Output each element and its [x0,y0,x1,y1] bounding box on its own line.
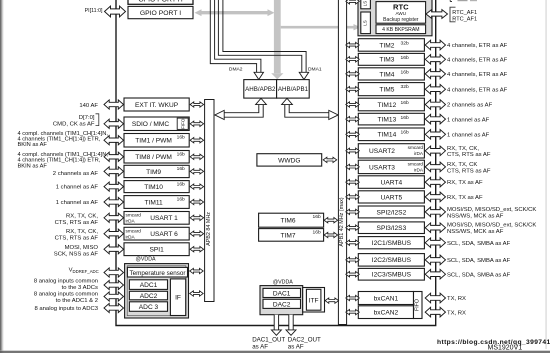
Temperature sensor [127,267,187,277]
svg-text:RTC: RTC [393,2,409,11]
arrow TIM1 / PWM to APB2 [190,138,204,143]
svg-text:RX, TX, CK: RX, TX, CK [447,162,477,168]
svg-text:UART5: UART5 [381,194,403,201]
peripheral TIM12 [358,98,424,111]
arrow right AF TIM14 [425,130,445,140]
peripheral SPI2/I2S2 [358,206,424,218]
peripheral TIM3 [358,53,424,65]
arrow right AF TIM5 [425,84,445,94]
svg-text:SCL, SDA, SMBA as AF: SCL, SDA, SMBA as AF [447,272,511,278]
arrow TIM9 to APB2 [190,169,204,174]
peripheral SDIO / MMC [124,117,189,131]
svg-text:Temperature sensor: Temperature sensor [130,270,186,277]
GPIO PORT I [128,6,193,18]
arrow left AF TIM9 [104,167,123,176]
svg-text:ITF: ITF [309,297,319,304]
gray bus arrow to RTC LS [281,24,361,30]
peripheral USART 6 [124,227,189,240]
arrow right AF TIM13 [425,114,445,124]
svg-text:2 channels as AF: 2 channels as AF [447,103,493,109]
svg-text:AWU: AWU [396,11,407,16]
arrow TIM7 to APB1 [324,232,338,237]
svg-text:140 AF: 140 AF [79,103,98,109]
label 8 analog inputs common to the 3 ADCs [34,278,98,290]
svg-text:to the ADC1 & 2: to the ADC1 & 2 [56,298,98,304]
svg-text:AHB/APB2: AHB/APB2 [245,86,276,93]
label DAC2_OUT as AF [288,337,321,351]
ADC2 [129,291,167,300]
svg-text:D[7:0]: D[7:0] [79,115,95,121]
arrow APB1 to bxCAN2 [346,309,360,314]
svg-text:SDIO / MMC: SDIO / MMC [132,121,170,128]
peripheral TIM7 [259,229,324,242]
svg-text:SCL, SDA, SMBA as AF: SCL, SDA, SMBA as AF [447,258,511,264]
DAC1 [263,288,301,297]
page right faint border [545,0,548,349]
arrow APB1 to USART2 [346,148,360,153]
RTC outer block [358,0,432,36]
DMA2 request wire (hollow) [210,0,263,80]
wire AHB/APB2 to APB2 bus [215,98,267,119]
svg-text:IF: IF [175,294,181,301]
arrow right AF SPI2/I2S2 [425,207,445,217]
svg-text:TIM4: TIM4 [379,71,394,78]
peripheral USART 1 [124,212,189,225]
bus APB1 42 MHz (max) [338,0,346,325]
svg-text:MOSI, MISO: MOSI, MISO [65,245,99,251]
svg-text:@VDDA: @VDDA [135,256,156,262]
arrow APB1 to TIM2 [346,42,360,47]
arrow left AF USART 1 [104,213,123,222]
ADC3 [129,302,167,312]
svg-text:RX, TX, CK,: RX, TX, CK, [66,214,98,220]
svg-text:UART4: UART4 [381,180,403,187]
svg-text:8 analog inputs to ADC3: 8 analog inputs to ADC3 [34,306,98,312]
arrow ADC to APB2 [190,291,204,296]
arrow APB1 to I2C3/SMBUS [346,272,360,277]
arrow left AF EXT IT. WKUP [104,100,123,109]
arrow right AF TIM4 [425,69,445,79]
svg-text:TIM10: TIM10 [144,184,163,191]
svg-text:16b: 16b [401,100,409,106]
arrow APB1 to I2C1/SMBUS [346,240,360,245]
AHB system bus (gray vertical) [271,0,283,79]
peripheral TIM6 [259,213,324,227]
svg-text:16b: 16b [313,214,321,220]
svg-text:FIFO: FIFO [414,299,420,311]
arrow left AF TIM1 / PWM [104,136,123,145]
RTC LS box 2 [361,12,371,34]
svg-text:NSS/WS, MCK as AF: NSS/WS, MCK as AF [447,229,504,235]
svg-text:32b: 32b [401,84,409,90]
label SPI2/I2S2 pins [447,207,536,219]
label DAC1_OUT as AF [252,337,285,351]
svg-text:TIM7: TIM7 [280,232,295,239]
svg-text:APB1 42 MHz (max): APB1 42 MHz (max) [339,197,345,246]
svg-text:ADC1: ADC1 [140,282,158,289]
arrow right AF I2C1/SMBUS [425,238,445,248]
arrow RTC AF [426,10,448,19]
arrow temp sensor to APB2 [190,268,204,273]
arrow DAC to APB1 [325,298,339,303]
svg-text:smcard: smcard [126,229,142,234]
svg-text:CTS, RTS as AF: CTS, RTS as AF [55,236,99,242]
svg-text:BKIN as AF: BKIN as AF [18,142,48,148]
label TIM8 channels [18,152,109,169]
svg-text:CTS, RTS as AF: CTS, RTS as AF [447,168,491,174]
svg-text:16b: 16b [177,166,185,172]
svg-text:1 channel as AF: 1 channel as AF [447,117,490,123]
arrow right AF TIM12 [425,100,445,110]
RTC 4 KB BKPSRAM box [376,25,426,34]
arrow left AF USART 6 [104,229,123,238]
DAC1 output arrow [271,315,281,336]
svg-text:16b: 16b [177,196,185,202]
svg-text:TX, RX: TX, RX [447,296,466,302]
svg-text:FIFO: FIFO [180,118,185,129]
svg-text:EXT IT. WKUP: EXT IT. WKUP [135,102,179,109]
peripheral TIM14 [358,128,424,141]
arrow EXT IT. WKUP to APB2 [190,102,204,107]
peripheral TIM10 [124,181,189,193]
peripheral TIM4 [358,68,424,80]
arrow APB1 to bxCAN1 [346,295,360,300]
DAC ITF box [303,288,325,313]
svg-text:Backup register: Backup register [383,17,419,23]
svg-text:smcard: smcard [408,162,424,167]
label USART3 pins [447,162,491,174]
svg-text:MOSI/SD, MISO/SD_ext, SCK/CK: MOSI/SD, MISO/SD_ext, SCK/CK [447,207,536,213]
label RTC_AF1 x2 with bracket [450,7,477,22]
svg-text:TIM14: TIM14 [378,132,397,139]
RTC box [376,2,426,24]
svg-text:TIM3: TIM3 [379,57,394,64]
svg-text:irDA: irDA [126,219,136,224]
svg-text:RX, TX, CK,: RX, TX, CK, [447,146,479,152]
arrow right AF I2C3/SMBUS [425,269,445,279]
arrow right AF SPI3/I2S3 [425,223,445,233]
svg-text:TIM1 / PWM: TIM1 / PWM [135,138,172,145]
svg-text:8 analog inputs common: 8 analog inputs common [34,278,98,284]
svg-text:TIM2: TIM2 [379,42,394,49]
arrow APB1 to SPI3/I2S3 [346,225,360,230]
arrow ADC input 1 [104,268,123,277]
partial bracket of cut-off row above RTC_AF1 [450,0,477,2]
svg-text:1 channel as AF: 1 channel as AF [56,200,99,206]
arrow right AF TIM2 [425,40,445,50]
arrow TIM8 / PWM to APB2 [190,154,204,159]
svg-text:RX, TX, CK,: RX, TX, CK, [66,229,98,235]
svg-text:to the 3 ADCs: to the 3 ADCs [62,285,98,291]
svg-text:1 channel as AF: 1 channel as AF [56,185,99,191]
arrow ADC input 4 [104,303,123,312]
svg-text:@VDDA: @VDDA [273,279,294,285]
svg-text:ADC2: ADC2 [140,293,158,300]
arrow PI [105,6,126,17]
svg-text:4 channels, ETR as AF: 4 channels, ETR as AF [447,87,508,93]
peripheral TIM11 [124,196,189,209]
svg-text:APB2 84 MHz: APB2 84 MHz [206,212,212,246]
svg-text:USART2: USART2 [369,148,395,155]
svg-text:CTS, RTS as AF: CTS, RTS as AF [55,220,99,226]
page left edge shadow [0,0,3,353]
arrow right AF TIM3 [425,55,445,65]
bus APB2 84 MHz [205,100,214,302]
svg-text:RX, TX as AF: RX, TX as AF [447,180,483,186]
svg-text:TIM11: TIM11 [144,199,163,206]
arrow right AF USART2 [425,146,445,156]
svg-text:TIM8 / PWM: TIM8 / PWM [135,154,172,161]
arrow USART 1 to APB2 [190,215,204,220]
arrow SPI1 to APB2 [190,247,204,252]
svg-text:smcard: smcard [126,213,142,218]
svg-text:ADC 3: ADC 3 [139,304,159,311]
arrow left AF SDIO / MMC [104,119,123,128]
peripheral TIM1 / PWM [124,134,189,148]
peripheral SPI1 [124,243,189,256]
arrow APB1 to TIM5 [346,87,360,92]
arrow left AF TIM10 [104,182,123,191]
arrow left AF TIM11 [104,197,123,206]
svg-text:DDREF_ADC: DDREF_ADC [73,269,99,274]
svg-text:TIM6: TIM6 [280,218,295,225]
svg-text:AHB/APB1: AHB/APB1 [278,86,309,93]
arrow APB1 to TIM4 [346,71,360,76]
svg-text:RX, TX as AF: RX, TX as AF [447,195,483,201]
svg-text:16b: 16b [401,69,409,75]
peripheral bxCAN2 [358,306,413,319]
svg-text:LS: LS [362,20,367,25]
svg-text:TIM13: TIM13 [378,117,397,124]
svg-text:16b: 16b [313,229,321,235]
svg-text:CTS, RTS as AF: CTS, RTS as AF [447,152,491,158]
svg-text:bxCAN1: bxCAN1 [374,295,399,302]
DAC outer box [260,286,303,315]
svg-text:DAC1: DAC1 [273,291,291,298]
chip boundary (left edge, bottom edge, right edge) [116,0,436,326]
svg-text:DAC2: DAC2 [273,302,291,309]
arrow APB1 to SPI2/I2S2 [346,209,360,214]
svg-text:SPI2/I2S2: SPI2/I2S2 [377,209,407,216]
svg-text:DMA1: DMA1 [308,66,322,72]
peripheral TIM9 [124,165,189,177]
svg-text:PI[11:0]: PI[11:0] [85,8,103,14]
svg-text:WWDG: WWDG [278,157,300,164]
peripheral USART3 [358,160,424,173]
DAC2 [263,299,301,308]
arrow USART 6 to APB2 [190,231,204,236]
svg-text:irDA: irDA [414,151,424,156]
arrow right AF I2C2/SMBUS [425,255,445,265]
wire AHB/APB1 to APB1 bus [282,98,339,119]
svg-text:irDA: irDA [126,234,136,239]
svg-text:TIM9: TIM9 [146,169,161,176]
svg-text:TX, RX: TX, RX [447,310,466,316]
peripheral SPI3/I2S3 [358,222,424,234]
svg-text:smcard: smcard [408,145,424,150]
svg-text:USART 6: USART 6 [150,231,178,238]
svg-text:MOSI/SD, MISO/SD_ext, SCK/CK: MOSI/SD, MISO/SD_ext, SCK/CK [447,223,536,229]
bxCAN FIFO box [414,292,423,319]
peripheral TIM5 [358,83,424,96]
peripheral I2C1/SMBUS [358,237,424,249]
arrow right AF bxCAN1 [425,293,445,303]
arrow ADC input 2 [104,280,123,289]
arrow APB1 to TIM3 [346,57,360,62]
label USART6 pins [55,229,99,241]
svg-text:BKIN as AF: BKIN as AF [18,163,48,169]
svg-text:TIM5: TIM5 [379,87,394,94]
label SPI3/I2S3 pins [447,223,536,235]
arrow APB1 to TIM14 [346,132,360,137]
label USART1 pins [55,214,99,226]
svg-text:GPIO PORT I: GPIO PORT I [140,10,181,17]
svg-text:NSS/WS, MCK as AF: NSS/WS, MCK as AF [447,213,504,219]
svg-text:16b: 16b [401,115,409,121]
svg-text:4 KB BKPSRAM: 4 KB BKPSRAM [382,27,419,33]
bridge AHB/APB1 [277,80,310,99]
svg-text:16b: 16b [177,181,185,187]
svg-text:16b: 16b [401,130,409,136]
arrow APB1 to I2C2/SMBUS [346,257,360,262]
label SPI1 pins [54,245,99,257]
label 8 analog inputs common to the ADC1 & 2 [34,292,98,304]
peripheral TIM8 / PWM [124,151,189,164]
arrow top (cut) APB1 to RTC [346,0,360,4]
arrow SDIO / MMC to APB2 [190,121,204,126]
svg-text:RTC_AF1: RTC_AF1 [452,10,477,16]
svg-text:bxCAN2: bxCAN2 [374,310,399,317]
svg-text:as AF: as AF [252,343,268,350]
arrow APB1 to UART5 [346,194,360,199]
DMA1 request wire (hollow) [218,0,308,80]
svg-text:irDA: irDA [414,167,424,172]
svg-text:USART 1: USART 1 [150,215,178,222]
arrow ADC input 3 [104,292,123,301]
svg-text:LS: LS [362,1,367,6]
svg-text:1 channel as AF: 1 channel as AF [447,133,490,139]
svg-text:CMD, CK as AF: CMD, CK as AF [53,121,95,127]
RTC LS box 1 [361,0,371,9]
svg-text:RTC_AF1: RTC_AF1 [452,16,477,22]
bridge AHB/APB2 [244,80,277,99]
peripheral I2C2/SMBUS [358,254,424,267]
svg-text:SCK, NSS as AF: SCK, NSS as AF [54,252,99,258]
arrow APB1 to TIM13 [346,116,360,121]
peripheral UART5 [358,191,424,203]
svg-text:GPIO PORT H: GPIO PORT H [138,0,182,3]
svg-text:SPI1: SPI1 [149,247,164,254]
label TIM1 channels [18,131,109,148]
peripheral I2C3/SMBUS [358,268,424,280]
DAC2 output arrow [286,315,296,336]
arrow APB1 to UART4 [346,179,360,184]
svg-text:4 channels, ETR as AF: 4 channels, ETR as AF [447,72,508,78]
arrow TIM11 to APB2 [190,199,204,204]
svg-text:4 channels, ETR as AF: 4 channels, ETR as AF [447,58,508,64]
label D[7:0] CMD, CK as AF [53,114,99,128]
svg-text:16b: 16b [401,55,409,61]
svg-text:I2C1/SMBUS: I2C1/SMBUS [372,240,412,247]
arrow APB1 to USART3 [346,164,360,169]
peripheral EXT IT. WKUP [124,98,189,111]
arrow WWDG to APB1 [323,157,337,162]
ADC1 [129,280,167,290]
peripheral TIM13 [358,113,424,125]
arrow right AF UART4 [425,177,445,187]
svg-text:as AF: as AF [288,343,304,350]
peripheral USART2 [358,144,424,158]
peripheral bxCAN1 [358,292,413,305]
arrow TIM6 to APB1 [324,218,338,223]
arrow right AF UART5 [425,192,445,202]
peripheral TIM2 [358,39,424,52]
label VDDREF_ADC [69,267,99,273]
label USART2 pins [447,146,491,158]
svg-text:TIM12: TIM12 [378,102,397,109]
svg-text:SCL, SDA, SMBA as AF: SCL, SDA, SMBA as AF [447,241,511,247]
arrow right AF bxCAN2 [425,307,445,317]
page bottom border [0,351,550,353]
svg-text:4 channels, ETR as AF: 4 channels, ETR as AF [447,43,508,49]
svg-text:DMA2: DMA2 [229,66,243,72]
peripheral UART4 [358,176,424,189]
svg-text:16b: 16b [177,134,185,140]
svg-text:32b: 32b [401,40,409,46]
arrow right AF USART3 [425,162,445,172]
arrow APB1 to TIM12 [346,102,360,107]
svg-text:SPI3/I2S3: SPI3/I2S3 [377,225,407,232]
ADC IF box [170,279,185,316]
svg-text:I2C3/SMBUS: I2C3/SMBUS [372,272,412,279]
svg-text:8 analog inputs common: 8 analog inputs common [34,292,98,298]
svg-text:I2C2/SMBUS: I2C2/SMBUS [372,257,412,264]
gray bus arrow to GPIO PORT I [195,9,275,16]
GPIO PORT H (cut off) [128,0,193,4]
svg-text:USART3: USART3 [369,164,395,171]
arrow TIM10 to APB2 [190,184,204,189]
ADC block outer [125,264,189,318]
peripheral WWDG [257,154,322,166]
arrow left AF TIM8 / PWM [104,152,123,161]
ADC inner frame [127,266,186,316]
svg-text:16b: 16b [177,151,185,157]
svg-text:2 channels as AF: 2 channels as AF [53,171,99,177]
arrow left AF SPI1 [104,245,123,254]
